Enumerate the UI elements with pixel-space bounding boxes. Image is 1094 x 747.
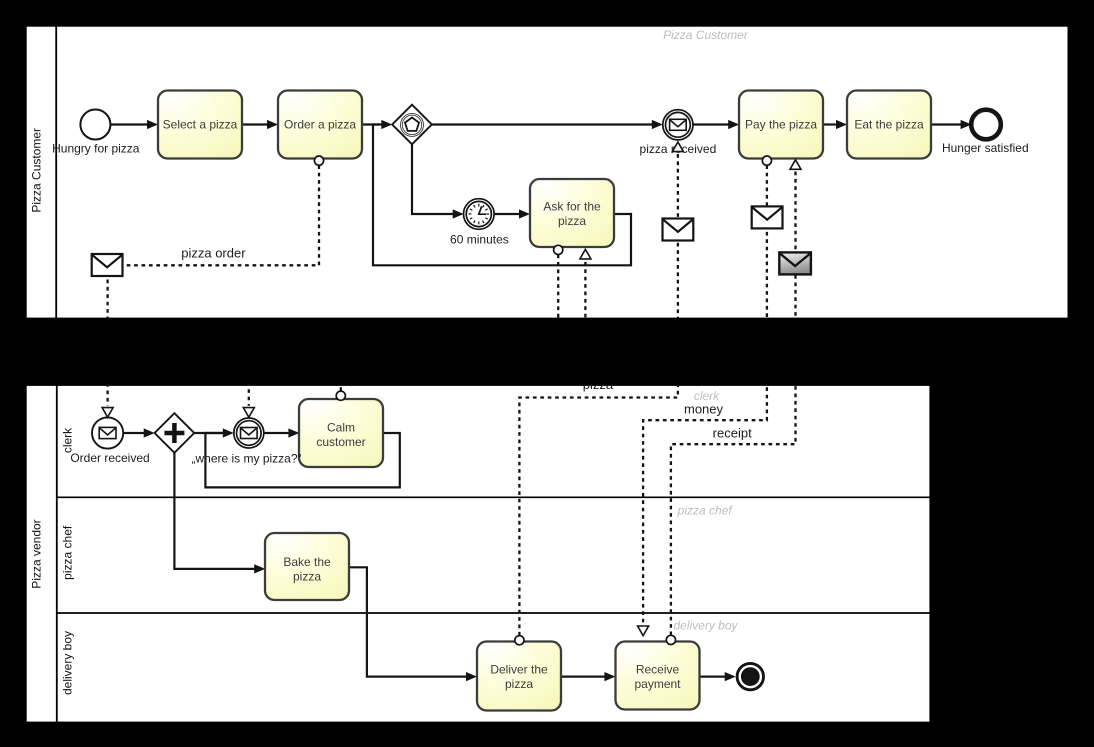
wire Calm customer loop back to where is my pizza xyxy=(205,433,399,487)
message envelope money xyxy=(752,206,783,228)
open arrow into Ask for the pizza bottom xyxy=(580,249,591,259)
wire parallel gateway to where is my pizza event xyxy=(194,428,234,437)
gateway parallel plus xyxy=(155,413,195,453)
lane clerk xyxy=(57,496,931,498)
svg-text:Receive: Receive xyxy=(636,663,680,677)
wire gateway down to timer xyxy=(412,144,464,218)
task Select a pizza xyxy=(158,91,242,159)
svg-text:pizza chef: pizza chef xyxy=(61,525,75,580)
wire message flow calm reply xyxy=(341,260,586,392)
svg-text:delivery boy: delivery boy xyxy=(61,631,75,695)
message source dot Calm customer xyxy=(336,391,345,400)
message envelope pizza xyxy=(663,219,694,241)
intermediate message catch event where is my pizza xyxy=(234,418,264,448)
open arrow into where is my pizza xyxy=(243,408,254,418)
task Receive payment xyxy=(616,642,700,710)
wire message flow pizza xyxy=(519,152,678,635)
wire Receive payment to terminate end xyxy=(699,672,736,681)
wire Deliver the pizza to Receive payment xyxy=(561,672,615,681)
black band between pools xyxy=(0,318,1094,385)
svg-text:delivery boy: delivery boy xyxy=(673,618,738,632)
wire timer to Ask for the pizza xyxy=(494,209,530,218)
svg-text:Hunger satisfied: Hunger satisfied xyxy=(942,141,1029,155)
task Bake the pizza xyxy=(265,533,349,600)
svg-text:pizza: pizza xyxy=(293,569,321,583)
svg-text:pizza chef: pizza chef xyxy=(677,504,734,518)
svg-text:pizza order: pizza order xyxy=(181,245,246,260)
message start event Order received xyxy=(92,417,123,448)
task Order a pizza xyxy=(278,91,362,159)
wire start to Select a pizza xyxy=(110,120,158,129)
open arrow into Receive payment top xyxy=(638,626,649,636)
svg-text:Ask for the: Ask for the xyxy=(543,200,601,214)
pool Pizza Customer xyxy=(26,26,1069,322)
svg-text:Eat the pizza: Eat the pizza xyxy=(854,118,924,132)
message source dot Pay the pizza xyxy=(762,156,771,165)
svg-text:Pay the pizza: Pay the pizza xyxy=(745,118,817,132)
message source dot Ask for the pizza xyxy=(554,245,563,254)
svg-text:60 minutes: 60 minutes xyxy=(450,233,509,247)
svg-text:Hungry for pizza: Hungry for pizza xyxy=(52,142,140,156)
wire message flow pizza order xyxy=(108,165,319,405)
svg-text:Deliver the: Deliver the xyxy=(490,663,548,677)
message source dot Deliver the pizza xyxy=(515,636,524,645)
wire gateway to pizza received xyxy=(432,120,663,129)
wire message flow receipt xyxy=(671,170,796,635)
svg-text:clerk: clerk xyxy=(61,427,75,453)
wire Eat the pizza to end event xyxy=(931,120,972,129)
svg-text:Pizza Customer: Pizza Customer xyxy=(663,28,749,42)
open arrow into Order received xyxy=(102,408,113,418)
svg-text:money: money xyxy=(684,401,724,416)
svg-text:receipt: receipt xyxy=(713,425,752,440)
timer event 60 minutes xyxy=(464,199,495,230)
open arrow into Pay the pizza bottom xyxy=(790,160,801,170)
svg-text:„where is my pizza?“: „where is my pizza?“ xyxy=(191,451,301,465)
task Ask for the pizza xyxy=(530,179,614,247)
svg-text:customer: customer xyxy=(316,435,365,449)
intermediate message catch event pizza received xyxy=(663,110,693,140)
message source dot Receive payment xyxy=(666,635,675,644)
wire Order a pizza to gateway xyxy=(362,120,392,129)
svg-text:Pizza vendor: Pizza vendor xyxy=(30,519,44,588)
svg-text:clerk: clerk xyxy=(694,389,720,403)
terminate end event xyxy=(737,663,763,689)
pool Pizza vendor xyxy=(26,385,931,723)
gateway event-based U1 xyxy=(392,105,432,145)
svg-text:pizza: pizza xyxy=(505,677,533,691)
wire message flow money xyxy=(643,165,767,625)
wire Pay the pizza to Eat the pizza xyxy=(823,120,847,129)
svg-text:Select a pizza: Select a pizza xyxy=(163,118,238,132)
end event Hunger satisfied xyxy=(971,110,1001,140)
svg-text:Order a pizza: Order a pizza xyxy=(284,118,356,132)
wire Select a pizza to Order a pizza xyxy=(242,120,278,129)
message source dot Order a pizza xyxy=(314,156,323,165)
message envelope pizza order xyxy=(92,254,123,276)
open arrow into pizza received xyxy=(672,142,683,152)
wire parallel gateway down to Bake the pizza xyxy=(174,453,265,574)
svg-text:pizza: pizza xyxy=(558,214,586,228)
wire Order received to parallel gateway xyxy=(124,428,155,437)
wire where is my pizza to Calm customer xyxy=(264,428,300,437)
wire message flow where is my pizza question xyxy=(249,255,558,406)
svg-text:Pizza Customer: Pizza Customer xyxy=(30,128,44,213)
wire pizza received to Pay the pizza xyxy=(693,120,739,129)
task Calm customer xyxy=(299,399,383,467)
wire Bake the pizza to Deliver the pizza xyxy=(348,567,477,681)
svg-text:Order received: Order received xyxy=(70,451,149,465)
svg-text:Calm: Calm xyxy=(327,420,355,434)
svg-text:payment: payment xyxy=(634,677,681,691)
task Eat the pizza xyxy=(847,91,931,159)
lane pizza chef xyxy=(57,612,931,614)
wire Ask for the pizza loop back to gateway xyxy=(373,125,631,266)
start event Hungry for pizza xyxy=(80,110,110,140)
message envelope receipt grey xyxy=(779,252,811,274)
svg-text:Bake the: Bake the xyxy=(283,555,331,569)
task Deliver the pizza xyxy=(477,642,561,711)
task Pay the pizza xyxy=(739,91,823,159)
